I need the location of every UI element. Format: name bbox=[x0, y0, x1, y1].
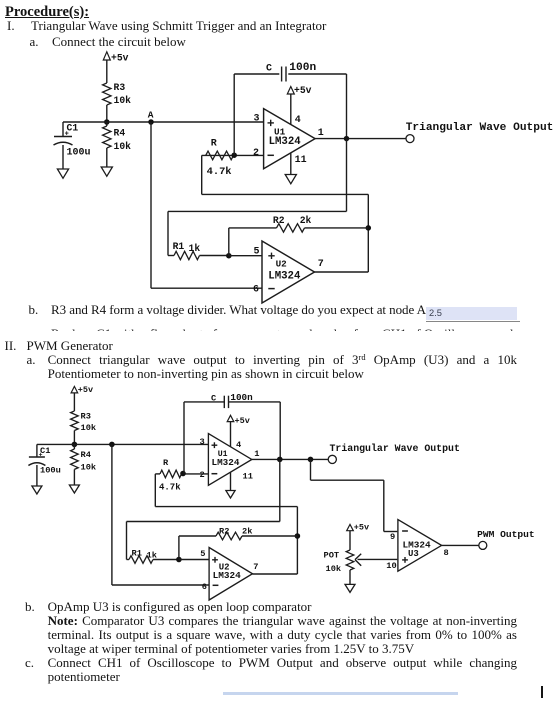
svg-text:Triangular Wave Output: Triangular Wave Output bbox=[406, 122, 554, 134]
svg-text:R: R bbox=[211, 139, 217, 150]
svg-text:100u: 100u bbox=[67, 148, 91, 159]
svg-text:6: 6 bbox=[253, 285, 259, 296]
svg-text:R3: R3 bbox=[114, 82, 126, 93]
svg-text:+5v: +5v bbox=[354, 523, 369, 533]
svg-text:4: 4 bbox=[295, 115, 301, 126]
svg-text:10k: 10k bbox=[114, 95, 132, 106]
svg-text:4.7k: 4.7k bbox=[207, 166, 232, 178]
svg-text:R2: R2 bbox=[273, 215, 285, 226]
svg-text:LM324: LM324 bbox=[213, 570, 242, 581]
svg-text:PWM Output: PWM Output bbox=[477, 529, 535, 540]
svg-text:100n: 100n bbox=[289, 62, 316, 74]
svg-text:5: 5 bbox=[200, 549, 205, 559]
svg-text:4.7k: 4.7k bbox=[159, 483, 181, 493]
svg-text:4: 4 bbox=[236, 440, 241, 450]
svg-text:10: 10 bbox=[386, 561, 396, 571]
svg-text:8: 8 bbox=[444, 548, 449, 558]
svg-text:Triangular Wave Output: Triangular Wave Output bbox=[330, 443, 460, 454]
svg-text:10k: 10k bbox=[81, 463, 97, 473]
svg-text:6: 6 bbox=[202, 582, 207, 592]
svg-text:U3: U3 bbox=[408, 549, 419, 559]
svg-text:+5v: +5v bbox=[294, 85, 312, 96]
svg-text:C: C bbox=[266, 64, 272, 75]
svg-text:7: 7 bbox=[253, 562, 258, 572]
svg-text:7: 7 bbox=[318, 259, 324, 270]
svg-text:100n: 100n bbox=[230, 392, 253, 403]
svg-text:R3: R3 bbox=[81, 412, 91, 422]
svg-text:+5v: +5v bbox=[78, 385, 93, 395]
svg-text:1k: 1k bbox=[189, 243, 201, 254]
svg-text:R4: R4 bbox=[81, 450, 91, 460]
svg-text:3: 3 bbox=[200, 437, 205, 447]
svg-text:R1: R1 bbox=[173, 241, 185, 252]
svg-text:LM324: LM324 bbox=[212, 457, 240, 468]
svg-text:11: 11 bbox=[295, 155, 307, 166]
svg-text:LM324: LM324 bbox=[268, 271, 301, 283]
svg-text:10k: 10k bbox=[114, 141, 132, 152]
svg-text:2k: 2k bbox=[242, 527, 252, 537]
svg-text:R: R bbox=[163, 458, 169, 468]
svg-text:R4: R4 bbox=[114, 128, 126, 139]
svg-text:5: 5 bbox=[254, 247, 260, 258]
svg-text:1: 1 bbox=[318, 128, 324, 139]
svg-text:A: A bbox=[148, 110, 154, 121]
svg-text:9: 9 bbox=[390, 532, 395, 542]
svg-text:10k: 10k bbox=[81, 423, 97, 433]
svg-text:C: C bbox=[211, 394, 216, 404]
svg-text:2: 2 bbox=[200, 470, 205, 480]
svg-text:LM324: LM324 bbox=[269, 136, 302, 148]
svg-text:R2: R2 bbox=[219, 527, 229, 537]
svg-text:11: 11 bbox=[243, 472, 253, 482]
svg-text:+5v: +5v bbox=[235, 416, 250, 426]
svg-text:10k: 10k bbox=[326, 564, 342, 574]
svg-text:3: 3 bbox=[254, 114, 260, 125]
svg-text:U2: U2 bbox=[276, 259, 288, 270]
svg-text:2: 2 bbox=[253, 148, 259, 159]
svg-text:POT: POT bbox=[324, 551, 340, 561]
svg-text:2k: 2k bbox=[300, 215, 312, 226]
svg-text:+5v: +5v bbox=[111, 53, 129, 64]
svg-text:1: 1 bbox=[254, 449, 259, 459]
svg-text:100u: 100u bbox=[40, 466, 61, 476]
